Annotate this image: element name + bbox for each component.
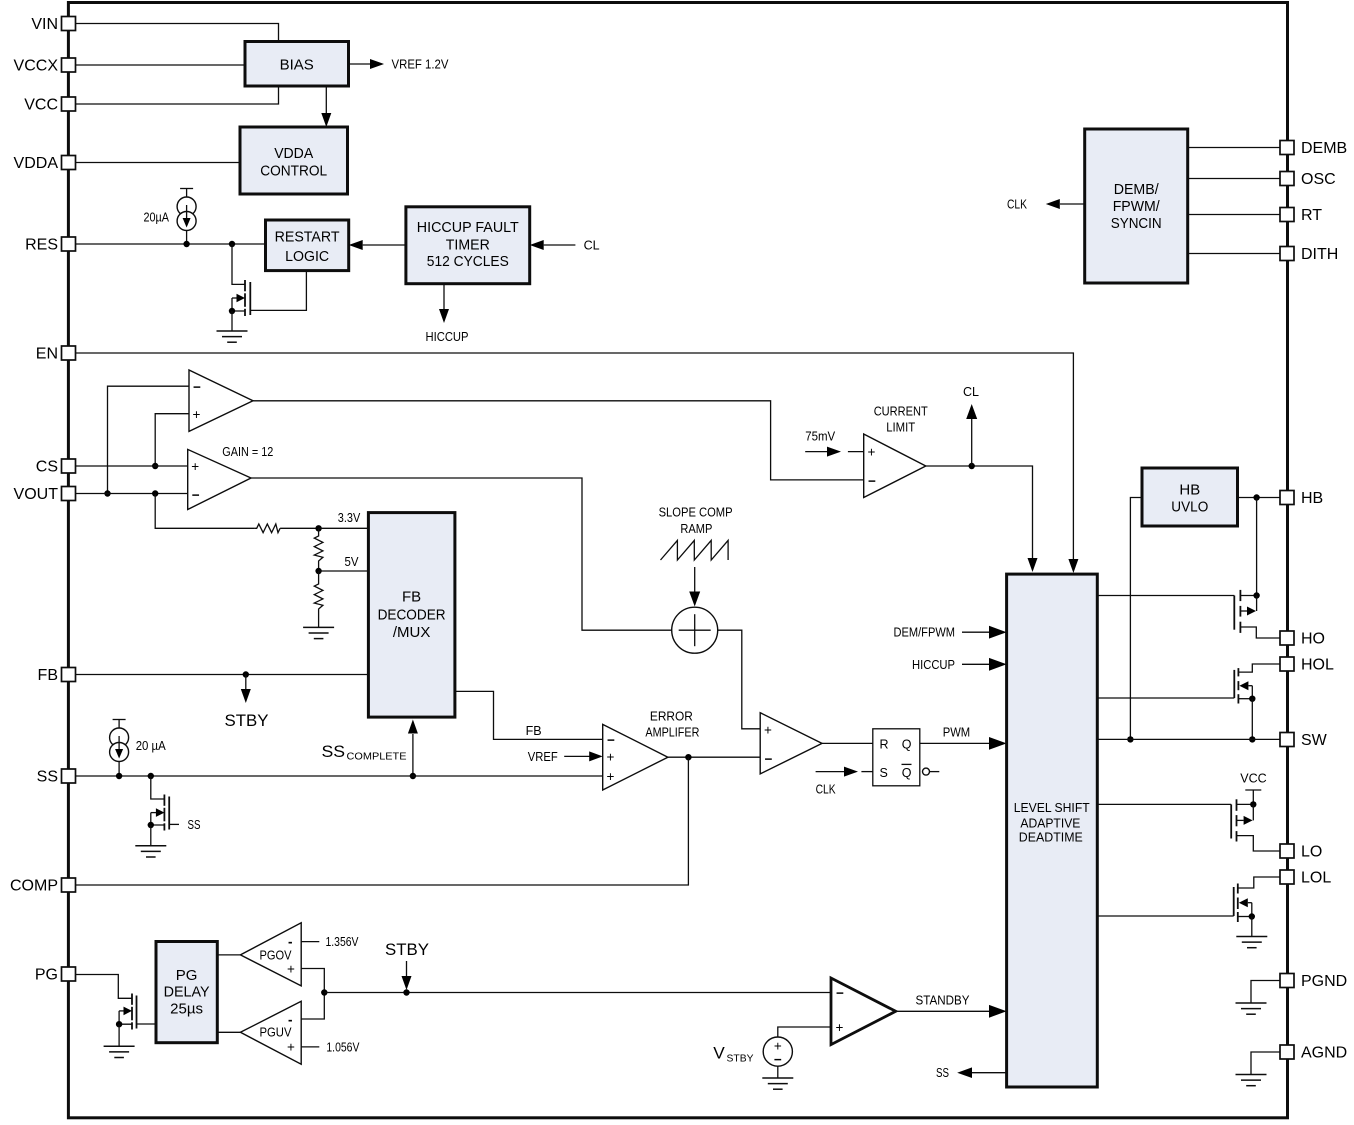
wire SS pin to error amp third input [76,775,603,777]
op-amp U11 PGUV comparator [240,1001,301,1064]
svg-text:DEMB/: DEMB/ [1114,181,1160,198]
svg-text:CURRENT: CURRENT [874,404,928,418]
wire VDDA to VDDA CONTROL [76,162,241,164]
svg-text:SS: SS [322,742,346,761]
VCC supply tick [1245,790,1261,804]
wire latch Q output PWM to level shifter (arrow) [920,726,1007,750]
svg-text:VDDA: VDDA [274,145,313,162]
wire R1 to 3.3V node [280,527,319,529]
pin PG [35,967,76,984]
wire 5V tap into FB DECODER [319,570,369,572]
svg-text:FB: FB [38,667,58,684]
ground below VSTBY [762,1078,793,1089]
pin EN [36,346,76,363]
svg-text:1.356V: 1.356V [326,935,360,949]
svg-text:HO: HO [1301,631,1325,648]
svg-text:−: − [774,1052,782,1067]
svg-text:PGOV: PGOV [260,948,293,962]
svg-text:GAIN = 12: GAIN = 12 [222,445,273,459]
wire PG DELAY to PGUV tip [217,1031,240,1033]
transistor Q1 (RES pulldown) [229,244,307,331]
ground at PGND [1236,1003,1267,1014]
label VSTBY [713,1044,753,1065]
svg-text:SW: SW [1301,732,1328,749]
wire VOUT pin to U3- [76,493,188,495]
wire AGND pin to ground [1251,1052,1280,1075]
svg-text:AMPLIFER: AMPLIFER [645,726,699,740]
svg-text:+: + [764,722,772,737]
svg-text:-: - [288,934,293,949]
svg-text:OSC: OSC [1301,171,1336,188]
wire error amp output to PWM comparator inverting input [668,756,760,758]
node 3.3V tap [315,525,321,531]
svg-text:−: − [836,985,844,1000]
label CURRENT LIMIT [874,404,928,434]
wire FB DECODER output to error amp inverting input [455,691,603,739]
svg-text:V: V [713,1044,725,1063]
summing node S1 [672,607,718,653]
wire VCCX to BIAS left [76,64,246,66]
node error amp output / COMP [685,754,691,760]
svg-text:/MUX: /MUX [393,624,431,641]
svg-text:S: S [880,766,888,780]
wire standby comparator output STANDBY (arrow into block) [896,994,1007,1018]
svg-text:STBY: STBY [225,711,269,730]
node PG comparators output join [321,989,327,995]
svg-text:VCCX: VCCX [14,58,59,75]
wire CS pin to U3+ [76,465,188,467]
svg-text:−: − [868,473,876,488]
svg-text:HICCUP: HICCUP [426,330,469,344]
wire HOL gate from level shifter [1097,697,1234,699]
transistor Q3 (PG open drain) [116,994,156,1047]
block HICCUP FAULT TIMER [406,207,530,284]
flip-flop U7 (RS latch) [873,729,920,786]
pin OSC [1280,171,1336,188]
pin VOUT [14,486,76,503]
pin DITH [1280,246,1338,263]
wire PG pin to Q3 drain [76,975,133,999]
wire U3 output to summing node [251,478,672,630]
transistor Q7 (LO driver low side) [1234,884,1255,937]
svg-text:PGUV: PGUV [260,1026,293,1040]
svg-text:LEVEL SHIFT: LEVEL SHIFT [1014,800,1090,815]
svg-text:FB: FB [402,588,421,605]
transistor Q2 (SS pulldown) [148,776,179,846]
node SS at Q2 rail [148,773,154,779]
pin FB [38,667,76,684]
wire 75mV into current limit + (arrow) [805,429,864,456]
svg-text:HB: HB [1301,490,1323,507]
svg-text:AGND: AGND [1301,1045,1347,1062]
svg-text:BIAS: BIAS [280,56,314,73]
svg-text:RESTART: RESTART [275,228,340,245]
wire STBY arrow down to line [402,961,412,990]
wire U2 to DEMB pin [1188,147,1280,149]
pin SS [37,769,76,786]
op-amp U9 standby comparator [831,978,896,1045]
wire VOUT divider feed [155,494,254,529]
ground below divider [303,627,334,638]
node U1+ on CS line [152,463,158,469]
wire U1 non-inverting input from CS [155,414,189,466]
svg-text:STBY: STBY [727,1053,754,1065]
node 5V tap [315,568,321,574]
block VDDA CONTROL [240,127,348,194]
wire VIN to BIAS top [76,24,279,42]
svg-text:+: + [607,769,615,784]
svg-text:DEADTIME: DEADTIME [1019,830,1083,845]
op-amp U6 PWM comparator [760,713,822,774]
pin HB [1280,490,1323,507]
wire CL input to HICCUP TIMER (arrow left) [530,239,600,253]
ground below Q3 [104,1046,135,1057]
pin VCCX [14,58,76,75]
node SS COMPLETE on SS line [410,773,416,779]
wire SW line [1097,738,1280,740]
node SS at current source [116,773,122,779]
node Q5 source on SW [1249,736,1255,742]
svg-text:HOL: HOL [1301,657,1334,674]
svg-text:SYNCIN: SYNCIN [1111,215,1162,232]
node divider tap on VOUT line [152,490,158,496]
svg-text:UVLO: UVLO [1171,498,1208,515]
svg-text:LO: LO [1301,844,1322,861]
svg-text:DELAY: DELAY [164,984,210,1001]
wire SS COMPLETE arrow into FB DECODER [408,720,418,777]
svg-text:SS: SS [188,818,201,832]
wire DEM/FPWM input (arrow) [894,626,1007,640]
resistor R2 (divider upper, vertical) [314,528,323,571]
pin VIN [31,16,75,33]
op-amp U5 error amplifier [603,724,668,790]
svg-text:FB: FB [526,724,542,738]
svg-text:VREF 1.2V: VREF 1.2V [392,58,450,72]
node CL output [969,463,975,469]
svg-text:SS: SS [936,1066,949,1080]
wire PGOV - reference stub [301,935,359,949]
voltage source VSTBY [763,1027,831,1078]
svg-text:+: + [287,962,295,977]
wire latch Qbar output with bubble [923,768,940,775]
svg-text:RAMP: RAMP [680,522,712,536]
svg-text:Q: Q [902,737,912,751]
svg-text:VCC: VCC [24,97,58,114]
svg-text:ERROR: ERROR [650,710,693,724]
block BIAS [245,42,349,87]
wire LO gate from level shifter [1097,803,1231,805]
wire 3.3V tap into FB DECODER [319,527,369,529]
svg-text:−: − [193,379,201,394]
svg-text:PG: PG [176,967,198,984]
wire PGOV + to STBY node [301,969,324,993]
pin LO [1280,844,1322,861]
wire PGUV - to STBY node [301,993,324,1020]
wire STBY arrow below FB line [241,675,251,704]
wire VCC to BIAS bottom [76,86,279,104]
svg-text:+: + [193,407,201,422]
svg-text:LOGIC: LOGIC [285,248,329,265]
wire LOL pin to Q7 drain [1238,877,1280,888]
wire U2 to DITH pin [1188,253,1280,255]
wire RES pin to RESTART LOGIC [76,243,266,245]
svg-text:LOL: LOL [1301,870,1331,887]
svg-text:ADAPTIVE: ADAPTIVE [1020,816,1080,831]
transistor Q5 (HO driver low side) [1234,668,1255,739]
svg-text:HICCUP: HICCUP [912,658,955,672]
pin RT [1280,207,1322,224]
wire PGND pin to ground [1251,981,1280,1004]
block PG DELAY 25us [156,942,217,1043]
block LEVEL SHIFT ADAPTIVE DEADTIME U8 [1007,574,1098,1087]
svg-text:Q: Q [902,766,912,780]
wire HICCUP output down arrow [426,284,469,344]
svg-text:PGND: PGND [1301,973,1347,990]
wire current limit output down into level shifter (arrow) [926,466,1038,572]
node on RES line at FET rail [229,241,235,247]
pin SW [1280,732,1328,749]
svg-text:75mV: 75mV [805,429,836,443]
resistor R1 (series, horizontal) [255,524,281,533]
pin HOL [1280,657,1334,674]
current source I1 20uA on RES [177,189,196,245]
svg-text:DEM/FPWM: DEM/FPWM [894,626,956,640]
wire VREF 1.2V output with arrowhead [349,58,450,72]
node on RES line at current source [183,241,189,247]
svg-text:CLK: CLK [816,783,837,797]
block FB DECODER /MUX [368,513,455,718]
pin AGND [1280,1045,1347,1062]
svg-text:SLOPE COMP: SLOPE COMP [659,506,733,520]
transistor Q4 (HO driver high side) [1234,590,1280,638]
resistor R3 (divider lower, vertical) [314,571,323,627]
svg-text:20 µA: 20 µA [136,739,167,753]
svg-text:STBY: STBY [385,940,429,959]
svg-text:VREF: VREF [528,750,558,764]
svg-text:PG: PG [35,967,58,984]
block DEMB/FPWM/SYNCIN U2 [1085,129,1188,283]
ground below Q2 [135,846,166,857]
svg-text:STANDBY: STANDBY [916,994,971,1008]
svg-text:TIMER: TIMER [446,237,490,254]
svg-text:DITH: DITH [1301,246,1338,263]
block HB UVLO [1142,468,1238,526]
ground below Q7 [1236,937,1267,948]
svg-text:+: + [868,445,876,460]
svg-text:CL: CL [584,239,600,253]
svg-text:CS: CS [36,459,58,476]
node STBY tap on FB line [243,671,249,677]
label SS COMPLETE [322,742,407,763]
wire PG DELAY to PGOV tip [217,954,240,956]
wire EN pin across to level shifter (arrow down into block) [76,353,1079,573]
wire HB UVLO left to SW sense [1130,498,1142,740]
svg-text:VOUT: VOUT [14,486,59,503]
wire HICCUP input (arrow) [912,658,1007,672]
svg-text:+: + [287,1040,295,1055]
svg-text:+: + [607,750,615,765]
svg-text:RT: RT [1301,207,1322,224]
wire HOL pin to Q5 drain [1238,664,1280,672]
svg-text:512 CYCLES: 512 CYCLES [427,253,509,270]
svg-text:20µA: 20µA [144,211,170,225]
svg-text:CONTROL: CONTROL [260,162,327,179]
svg-text:VCC: VCC [1240,772,1266,786]
svg-text:−: − [765,751,773,766]
label SLOPE COMP RAMP [659,506,733,537]
node HB rail [1253,494,1259,500]
op-amp U4 current limit comparator [864,434,926,498]
label ERROR AMPLIFER [645,710,699,740]
wire COMP pin riser [76,757,689,885]
svg-text:RES: RES [25,237,58,254]
svg-text:-: - [288,1012,293,1027]
svg-text:3.3V: 3.3V [338,511,361,525]
wire U1 inverting input from VOUT [108,386,190,493]
wire CL flag up arrow [963,385,979,466]
svg-text:1.056V: 1.056V [326,1040,360,1054]
current source I2 20uA on SS [110,720,129,777]
svg-text:FPWM/: FPWM/ [1113,198,1161,215]
wire STBY line to standby comparator [324,992,831,994]
node STBY arrow tap [403,989,409,995]
svg-text:DEMB: DEMB [1301,140,1347,157]
ground at AGND [1236,1075,1267,1086]
slope comp ramp sawtooth symbol [661,540,729,560]
svg-text:EN: EN [36,346,58,363]
svg-text:COMP: COMP [10,878,58,895]
pin HO [1280,631,1325,648]
svg-text:HB: HB [1179,481,1200,498]
block RESTART LOGIC [266,220,349,271]
wire PWM comparator output to latch R [822,742,873,744]
pin COMP [10,878,76,895]
wire summing node to PWM comparator + [718,630,761,729]
ground below Q1 [217,331,248,342]
svg-text:COMPLETE: COMPLETE [347,751,407,763]
op-amp U3 current sense amp GAIN = 12 [188,449,251,509]
pin VCC [24,97,75,114]
wire FB pin to FB DECODER [76,674,369,676]
node SW sense [1127,736,1133,742]
wire HB UVLO to HB pin [1238,497,1281,499]
svg-text:VIN: VIN [31,16,58,33]
svg-text:−: − [607,733,615,748]
svg-text:25µs: 25µs [170,1001,203,1018]
svg-text:−: − [192,487,200,502]
node U1- on VOUT line [104,490,110,496]
svg-text:R: R [880,737,889,751]
wire CLK output of U2 (arrow left) [1007,198,1085,212]
op-amp U1 (OVP comparator) [189,370,253,431]
svg-text:VDDA: VDDA [14,155,59,172]
wire CLK into latch S (arrow) [816,767,873,797]
svg-text:CL: CL [963,385,979,399]
wire BIAS to VDDA CONTROL arrow [321,86,331,127]
svg-text:PWM: PWM [943,726,971,740]
svg-text:+: + [836,1020,844,1035]
wire SS output of level shifter (arrow left) [936,1066,1007,1080]
pin PGND [1280,973,1347,990]
svg-text:LIMIT: LIMIT [886,421,915,435]
wire ramp to summing node (arrow down) [689,567,700,607]
wire HO gate from level shifter [1097,595,1234,597]
wire U2 to RT pin [1188,214,1280,216]
wire HICCUP TIMER to RESTART LOGIC (arrow left) [349,240,406,250]
svg-text:DECODER: DECODER [378,606,446,623]
svg-text:HICCUP FAULT: HICCUP FAULT [417,219,519,236]
wire LOL gate from level shifter [1097,915,1233,917]
pin LOL [1280,870,1331,887]
wire HB rail down to Q4 drain [1256,498,1258,596]
transistor Q6 (LO driver high side) [1231,799,1280,851]
pin CS [36,459,76,476]
wire VREF into error amp (arrow) [528,750,603,764]
svg-text:SS: SS [37,769,58,786]
pin VDDA [14,155,76,172]
wire U2 to OSC pin [1188,178,1280,180]
wire U1 output to current-limit inverting input [253,401,864,480]
op-amp U10 PGOV comparator [240,923,301,986]
svg-text:5V: 5V [345,555,360,569]
wire PGUV + reference stub [301,1040,360,1054]
svg-text:+: + [191,459,199,474]
pin RES [25,237,75,254]
svg-text:CLK: CLK [1007,198,1028,212]
pin DEMB [1280,140,1347,157]
